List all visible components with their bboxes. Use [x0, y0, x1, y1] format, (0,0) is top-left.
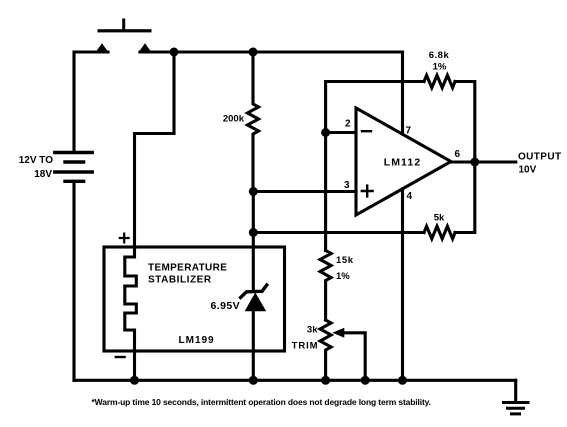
svg-text:10V: 10V — [519, 165, 537, 176]
wire: zener cathode lead — [252, 233, 255, 290]
potentiometer wiper arrow — [332, 328, 344, 338]
svg-text:12V TO: 12V TO — [19, 155, 53, 166]
pin label 2 — [345, 119, 351, 130]
wire: 5k to output node riser — [455, 162, 475, 233]
svg-text:1%: 1% — [433, 62, 447, 73]
node: output junction — [470, 158, 479, 167]
node: inverting input junction — [321, 128, 330, 137]
svg-text:*Warm-up time 10 seconds, inte: *Warm-up time 10 seconds, intermittent o… — [92, 397, 431, 407]
wire: switch node stepped down to heater + terminal — [135, 52, 175, 247]
node: 200k top junction — [249, 48, 258, 57]
resistor R2 6.8k (horizontal) — [424, 75, 455, 87]
label: LM112 — [384, 157, 422, 169]
wire: feedback riser and top run to 6.8k — [326, 82, 424, 133]
wire: bottom rail — [74, 379, 516, 382]
label: TEMPERATURE STABILIZER — [148, 263, 227, 286]
svg-text:7: 7 — [406, 126, 412, 137]
svg-text:LM112: LM112 — [384, 157, 422, 169]
svg-text:OUTPUT: OUTPUT — [518, 152, 562, 163]
resistor R4 15k (vertical) — [320, 251, 331, 321]
node: non-inverting input junction — [249, 187, 258, 196]
node: wiper to rail — [361, 376, 370, 385]
wire: non-inverting input to op-amp — [253, 190, 356, 193]
node: pin 4 to rail — [398, 376, 407, 385]
svg-text:TEMPERATURE: TEMPERATURE — [148, 263, 227, 274]
svg-text:6.8k: 6.8k — [429, 50, 450, 61]
svg-text:6: 6 — [455, 149, 461, 160]
resistor R3 5k (horizontal) — [424, 226, 455, 238]
svg-text:3: 3 — [344, 180, 350, 191]
potentiometer R5 3k TRIM (vertical) — [320, 320, 331, 380]
wire: inverting input to op-amp — [326, 131, 356, 134]
wire: battery positive up and over to switch left contact — [74, 52, 108, 153]
svg-text:15k: 15k — [336, 255, 354, 266]
label: - (heater bottom) — [116, 356, 125, 358]
resistor R1 200k (vertical) — [248, 52, 259, 192]
pin label 3 — [344, 180, 350, 191]
svg-text:3k: 3k — [307, 325, 318, 336]
wire: op-amp output — [451, 160, 516, 163]
svg-text:18V: 18V — [34, 169, 52, 180]
label: 6.8k 1% — [429, 50, 450, 73]
ground — [504, 403, 529, 414]
node: trim bottom to rail — [321, 376, 330, 385]
label: 200k — [223, 114, 245, 125]
label: + (heater top) — [120, 234, 129, 243]
footnote — [92, 397, 431, 407]
label: op-amp minus sign — [362, 130, 371, 132]
zener D1 — [241, 285, 267, 311]
svg-text:4: 4 — [407, 191, 413, 202]
svg-text:TRIM: TRIM — [292, 341, 319, 352]
svg-text:1%: 1% — [336, 271, 350, 282]
battery B1 — [55, 153, 92, 182]
node: switch output junction — [170, 48, 179, 57]
pin label 4 — [407, 191, 413, 202]
wire: op-amp pin 7 supply drop — [401, 52, 404, 134]
svg-text:5k: 5k — [434, 213, 445, 224]
switch S1 push-button — [95, 19, 152, 54]
wire: inverting node down to 15k — [324, 133, 327, 251]
node: zener to bottom rail — [249, 376, 258, 385]
label: OUTPUT 10V — [518, 152, 562, 176]
label: 6.95V — [211, 300, 240, 312]
node: zener / 5k junction — [249, 228, 258, 237]
svg-text:6.95V: 6.95V — [211, 300, 240, 312]
op-amp U1 LM112 triangle — [356, 108, 451, 215]
wire: op-amp pin 4 down to bottom rail — [401, 189, 404, 380]
wire: ground lead down from bottom rail — [514, 380, 517, 402]
svg-text:2: 2 — [345, 119, 351, 130]
label: 12V TO 18V — [19, 155, 53, 180]
wire: top rail from switch right contact to op-amp V+ corner — [140, 50, 403, 53]
heater element inside LM199 — [125, 247, 137, 380]
temperature stabilizer box LM199 — [104, 247, 285, 351]
pin label 7 — [406, 126, 412, 137]
label: 15k 1% — [336, 255, 354, 282]
node: heater to bottom rail — [130, 376, 139, 385]
label: LM199 — [179, 335, 215, 346]
svg-text:200k: 200k — [223, 114, 245, 125]
wire: 6.8k to output node drop — [455, 82, 475, 163]
pin label 6 — [455, 149, 461, 160]
svg-text:LM199: LM199 — [179, 335, 215, 346]
wire: zener node to 5k — [253, 231, 424, 234]
wire: zener node link — [252, 192, 255, 233]
wire: zener anode to bottom rail — [252, 311, 255, 380]
label: op-amp plus sign — [362, 186, 373, 197]
wire: wiper to bottom rail — [343, 333, 365, 381]
svg-text:STABILIZER: STABILIZER — [148, 275, 212, 286]
label: 5k — [434, 213, 445, 224]
wire: battery negative down to bottom rail — [72, 181, 75, 380]
label: 3k TRIM — [292, 325, 319, 352]
